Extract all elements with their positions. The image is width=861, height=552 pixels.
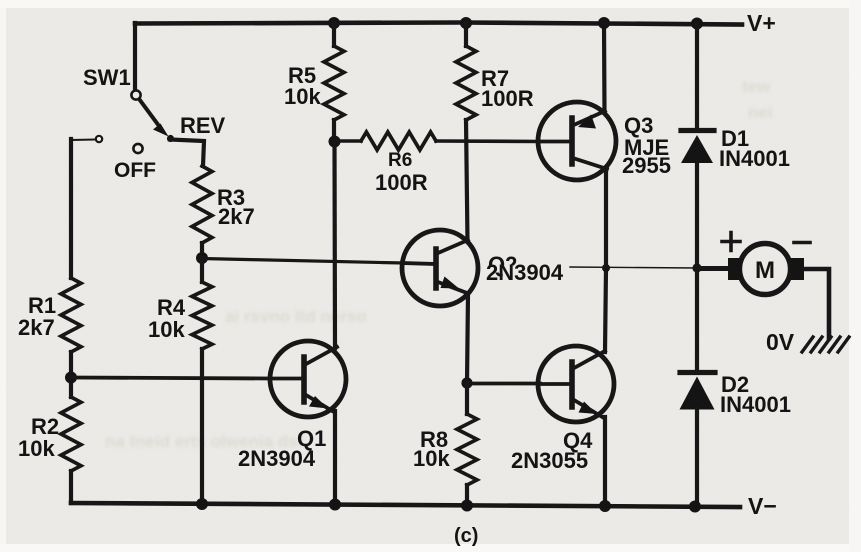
node Q4 bottom rail junction [599, 500, 611, 512]
wire R6 node down to Q1 collector [332, 142, 337, 349]
wire SW1 feed from V+ [133, 23, 137, 90]
wire R2 to V- rail [69, 471, 73, 503]
transistor Q3 MJE2955 [538, 102, 616, 180]
node FWD contact (left, unlabeled) [96, 136, 102, 142]
wire Q2 base from R3/R4 node [202, 259, 403, 264]
wire Q3 collector bus down through motor node to Q4 collector [605, 168, 606, 352]
transistor Q1 2N3904 [270, 341, 346, 417]
wire Q2 emitter bus down to R8 node [467, 294, 468, 383]
wire D1 to motor node [695, 162, 699, 268]
diode D1 triangle [681, 135, 713, 163]
node D2 bottom rail junction [689, 501, 701, 513]
node top rail Q3 [598, 17, 610, 29]
wire motor node thin link from Q2 area [570, 267, 697, 268]
node Q4 base / R8 junction [461, 377, 472, 388]
resistor R1 [61, 278, 81, 352]
wire Q1 emitter bus to V- rail [333, 411, 337, 504]
wire Q4 emitter bus to V- rail [603, 417, 607, 506]
wire top rail V+ [135, 23, 742, 25]
node R3/R4 junction [196, 252, 208, 264]
node top rail D1 [691, 18, 703, 30]
node motor junction on D1/D2 bus [692, 263, 701, 272]
wire R6 left lead [334, 139, 361, 143]
transistor Q4 2N3055 [538, 346, 614, 422]
wire R8 to V- rail [465, 485, 469, 506]
wire R6 right lead to Q3 base [436, 139, 539, 143]
wire R3/R4 node to R4 [200, 258, 204, 282]
wire R7 bottom down to Q2 collector [466, 120, 468, 241]
wire Q1 base from R1/R2 junction [71, 378, 270, 379]
wire R5 bottom to R6 node [332, 120, 336, 141]
node R4 bottom rail junction [196, 498, 208, 510]
wire D2 to V- rail [695, 408, 699, 506]
wire R3 bottom to node [200, 243, 204, 258]
ground symbol [802, 337, 849, 352]
wire left bus hook [72, 139, 95, 142]
diode D2 cathode bar [680, 370, 715, 375]
resistor R4 [192, 282, 212, 349]
wire REV contact to R3 top [170, 140, 204, 167]
node R8 bottom rail junction [461, 500, 473, 512]
node R5/R6 junction [329, 136, 341, 148]
wire bottom rail V- [71, 503, 740, 507]
wire motor node to D2 [695, 268, 699, 372]
motor plus sign [722, 233, 740, 251]
node top rail R5 [328, 17, 340, 29]
wire R1 to R2 [69, 352, 73, 397]
wire motor left lead [697, 266, 729, 271]
transistor Q2 2N3904 [402, 230, 478, 306]
resistor R8 [457, 414, 477, 485]
switch arm arrowhead [153, 124, 169, 137]
resistor R5 [324, 46, 344, 120]
node Q1 bottom rail junction [329, 499, 341, 511]
wire V+ rail to Q3 emitter [602, 23, 607, 112]
diode D1 cathode bar [681, 128, 714, 133]
node motor tap on Q3/Q4 bus [602, 264, 610, 272]
motor M [728, 244, 804, 295]
wire R8 node to R8 [465, 383, 469, 414]
diode D2 triangle [680, 377, 715, 410]
node REV contact [167, 135, 174, 142]
paper edge tint [0, 0, 861, 8]
motor minus sign [794, 241, 810, 245]
wire top rail to D1 [695, 23, 699, 129]
node R1/R2 junction [65, 372, 77, 384]
resistor R7 [456, 46, 476, 120]
ghost bleed-through text [105, 77, 773, 451]
node OFF contact [133, 144, 142, 153]
wire Q4 base wire [467, 382, 540, 386]
node top rail R7 [460, 17, 472, 29]
wire top rail to R7 [464, 23, 468, 46]
wire top rail to R5 [332, 23, 336, 46]
switch SW1 arm [140, 100, 160, 127]
wire R4 to V- rail [200, 349, 204, 504]
wire motor right lead to ground [804, 269, 829, 338]
resistor R6 [361, 132, 436, 150]
resistor R3 [192, 166, 212, 243]
resistor R2 [61, 397, 81, 471]
switch SW1 pole [131, 90, 140, 99]
